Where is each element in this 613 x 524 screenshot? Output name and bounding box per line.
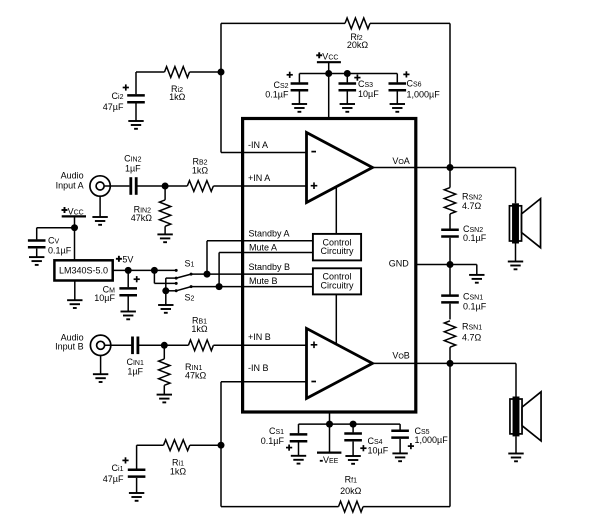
svg-text:5V: 5V: [122, 255, 133, 265]
svg-text:VOA: VOA: [392, 156, 409, 166]
svg-text:Ci1: Ci1: [112, 463, 124, 473]
svg-text:CV: CV: [48, 236, 60, 246]
svg-text:Circuitry: Circuitry: [321, 246, 354, 256]
svg-text:1kΩ: 1kΩ: [192, 166, 209, 176]
svg-text:4.7Ω: 4.7Ω: [462, 333, 482, 343]
svg-text:1µF: 1µF: [125, 164, 141, 174]
svg-text:CSN1: CSN1: [463, 292, 483, 302]
svg-text:-IN B: -IN B: [248, 363, 269, 373]
svg-text:1,000µF: 1,000µF: [415, 435, 449, 445]
svg-text:VEE: VEE: [323, 455, 339, 465]
svg-text:Rf1: Rf1: [345, 475, 357, 485]
svg-text:47µF: 47µF: [103, 474, 124, 484]
svg-text:CIN1: CIN1: [126, 357, 144, 367]
svg-text:CS3: CS3: [358, 79, 373, 89]
svg-text:CS4: CS4: [368, 436, 383, 446]
svg-text:0.1µF: 0.1µF: [463, 302, 487, 312]
svg-text:Standby A: Standby A: [249, 229, 290, 239]
svg-text:+IN B: +IN B: [248, 332, 271, 342]
svg-text:10µF: 10µF: [94, 293, 115, 303]
svg-text:20kΩ: 20kΩ: [347, 40, 369, 50]
svg-text:CS2: CS2: [273, 80, 288, 90]
svg-text:VCC: VCC: [68, 206, 84, 216]
svg-text:4.7Ω: 4.7Ω: [462, 201, 482, 211]
svg-text:Ci2: Ci2: [112, 91, 124, 101]
svg-text:1,000µF: 1,000µF: [407, 90, 441, 100]
svg-text:S1: S1: [185, 259, 195, 269]
svg-text:1µF: 1µF: [127, 367, 143, 377]
svg-text:VCC: VCC: [322, 51, 338, 61]
svg-text:CS1: CS1: [269, 426, 284, 436]
svg-text:S2: S2: [185, 293, 195, 303]
svg-text:0.1µF: 0.1µF: [48, 245, 72, 255]
svg-text:Circuitry: Circuitry: [321, 281, 354, 291]
svg-text:1kΩ: 1kΩ: [191, 324, 208, 334]
svg-text:20kΩ: 20kΩ: [340, 486, 362, 496]
svg-text:0.1µF: 0.1µF: [261, 436, 285, 446]
svg-text:LM340S-5.0: LM340S-5.0: [59, 266, 108, 276]
svg-text:Mute B: Mute B: [249, 276, 278, 286]
svg-text:GND: GND: [389, 259, 410, 269]
svg-text:Audio: Audio: [61, 170, 84, 180]
svg-text:47kΩ: 47kΩ: [131, 213, 153, 223]
svg-text:0.1µF: 0.1µF: [265, 90, 289, 100]
svg-text:1kΩ: 1kΩ: [169, 92, 186, 102]
svg-text:RSN1: RSN1: [462, 322, 482, 332]
svg-text:10µF: 10µF: [368, 446, 389, 456]
svg-text:Mute A: Mute A: [249, 242, 277, 252]
svg-text:-IN A: -IN A: [248, 140, 268, 150]
svg-text:10µF: 10µF: [358, 89, 379, 99]
svg-text:Input B: Input B: [55, 342, 84, 352]
svg-text:47µF: 47µF: [103, 102, 124, 112]
svg-text:47kΩ: 47kΩ: [185, 371, 207, 381]
svg-text:Standby B: Standby B: [249, 262, 291, 272]
svg-text:Input A: Input A: [56, 180, 84, 190]
svg-text:CS6: CS6: [407, 79, 422, 89]
svg-text:VOB: VOB: [392, 351, 409, 361]
svg-text:0.1µF: 0.1µF: [463, 233, 487, 243]
svg-text:CIN2: CIN2: [124, 154, 142, 164]
svg-text:1kΩ: 1kΩ: [170, 467, 187, 477]
svg-text:+IN A: +IN A: [248, 173, 270, 183]
